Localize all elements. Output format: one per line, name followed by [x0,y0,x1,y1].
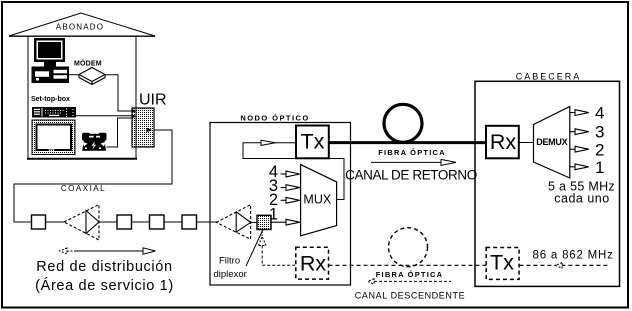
svg-text:Tx: Tx [490,251,514,275]
svg-text:MUX: MUX [303,193,331,207]
svg-text:Red de distribución: Red de distribución [36,259,172,275]
svg-text:COAXIAL: COAXIAL [61,184,106,193]
svg-text:86 a 862 MHz: 86 a 862 MHz [533,250,614,262]
svg-text:FIBRA ÓPTICA: FIBRA ÓPTICA [378,148,445,157]
svg-text:Tx: Tx [300,129,324,153]
svg-text:FIBRA ÓPTICA: FIBRA ÓPTICA [376,270,443,279]
svg-text:Rx: Rx [300,251,327,275]
svg-text:3: 3 [595,123,604,142]
svg-text:diplexor: diplexor [214,269,247,280]
svg-text:CABECERA: CABECERA [516,71,582,81]
svg-text:ABONADO: ABONADO [56,22,104,31]
svg-text:NODO ÓPTICO: NODO ÓPTICO [240,113,309,122]
svg-text:cada uno: cada uno [554,192,609,206]
svg-text:MÓDEM: MÓDEM [74,58,102,67]
svg-text:DEMUX: DEMUX [536,137,567,147]
svg-text:CANAL DE RETORNO: CANAL DE RETORNO [345,167,477,182]
svg-text:Set-top-box: Set-top-box [31,96,70,103]
svg-text:1: 1 [595,158,604,177]
svg-text:Filtro: Filtro [219,255,240,266]
svg-text:Rx: Rx [490,130,517,154]
svg-text:2: 2 [595,140,604,159]
svg-text:UIR: UIR [139,91,167,108]
svg-text:4: 4 [595,103,604,122]
svg-text:CANAL DESCENDENTE: CANAL DESCENDENTE [355,290,465,300]
svg-text:(Área de servicio 1): (Área de servicio 1) [35,277,174,294]
